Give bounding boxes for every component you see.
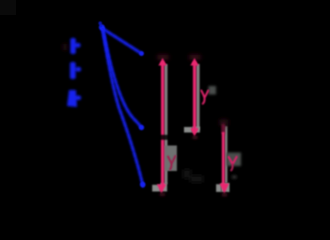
gray stub A3: [216, 184, 221, 192]
dim pink pre-line A3: [222, 124, 225, 134]
pink down arrowhead A3: [220, 184, 229, 195]
pink line A3: [222, 132, 225, 185]
gray fleck right of A3: [232, 175, 237, 179]
maroon band above A1 head: [158, 55, 169, 60]
black text crossing band over A1: [153, 135, 171, 140]
faint maroon top A3: [220, 120, 229, 126]
maroon tip fade A2: [193, 136, 198, 139]
faint text ghost row 2: [183, 170, 203, 183]
gray stub A2: [184, 127, 192, 133]
pink label y1: [168, 156, 175, 169]
gray shadow bar A3: [225, 126, 228, 183]
maroon band above A2 head: [189, 55, 200, 60]
blue line2 end bulge: [139, 125, 144, 130]
pink down arrowhead A1: [157, 184, 166, 193]
gray blob around label A3: [227, 153, 242, 167]
pink line A1: [161, 62, 164, 186]
gray shadow bar A1: [164, 64, 167, 184]
gray block A1 bottom: [160, 183, 167, 192]
gray stub A1: [152, 185, 160, 192]
pink down arrowhead A2: [190, 128, 198, 137]
maroon tip fade A3: [222, 193, 227, 197]
gray twin blob label A2: [209, 86, 217, 95]
blue glyph 2 (left margin, row B): [70, 62, 81, 79]
gray label block A1: [164, 146, 177, 172]
blue glyph 1 (left margin, row A): [70, 38, 80, 54]
blue line 2 : hub to row2: [103, 29, 142, 128]
blue glyph 3 (left margin, row C): [67, 90, 81, 107]
maroon tip fade A1: [160, 193, 165, 197]
pink label y2: [201, 91, 208, 104]
blue line1 end bulge: [139, 51, 144, 56]
blue line 1 : hub to row1: [103, 29, 142, 54]
pink up arrowhead A2: [190, 58, 198, 66]
blue line3 end bulge: [140, 182, 145, 187]
gray block A2 bottom: [192, 127, 200, 133]
blue line 3 : hub to row3: [103, 29, 144, 186]
blue hub arrowhead (binder): [99, 22, 105, 31]
pink up arrowhead A1: [158, 58, 166, 66]
pink line A2: [193, 62, 196, 131]
maroon smudge left of glyph1: [63, 44, 67, 50]
gray shadow bar A2: [196, 64, 199, 130]
gray block A3 bottom: [221, 183, 229, 192]
pink label y3: [229, 157, 237, 171]
